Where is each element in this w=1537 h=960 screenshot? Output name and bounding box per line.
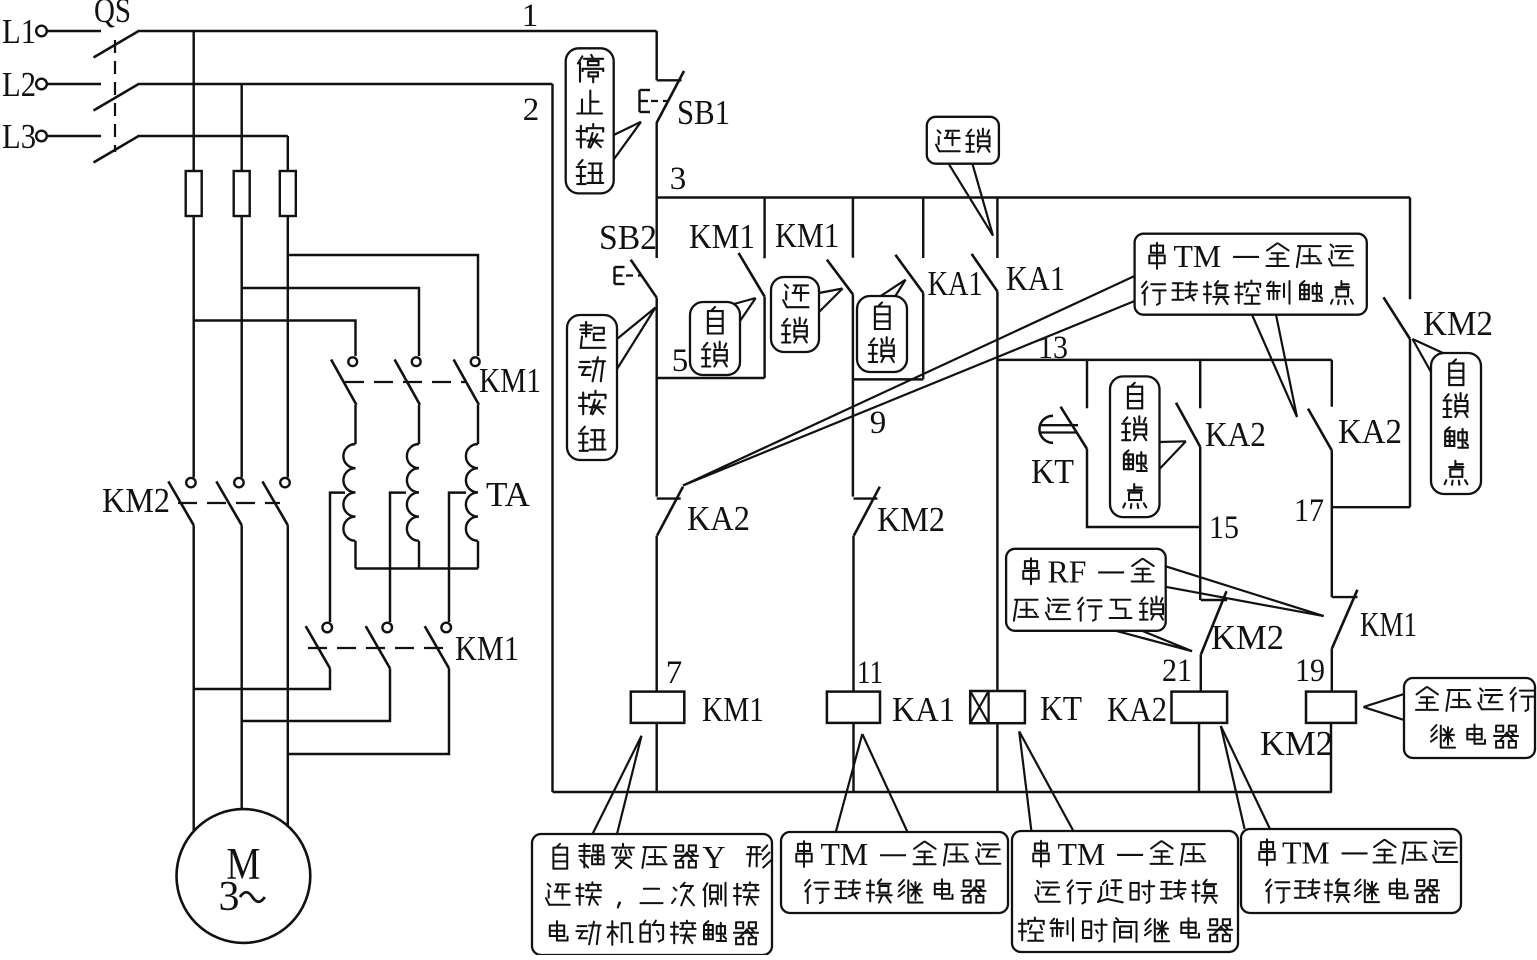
- svg-text:KM1: KM1: [1360, 605, 1417, 644]
- left control rail from node2: [551, 84, 553, 792]
- actuator E of SB2: [613, 267, 615, 284]
- contactor KM2 pole 3: [280, 478, 289, 487]
- branch KA2 first from rail13: [1199, 360, 1201, 408]
- coil KT with delay box: [970, 691, 1025, 723]
- fuse FU2: [234, 171, 250, 216]
- branch A wire rail3 to SB2: [655, 198, 657, 259]
- contactor KM1 main pole 1: [348, 357, 357, 366]
- wire KM2 NC to KA1 coil: [852, 536, 854, 692]
- contactor KM2 linkage dashed: [178, 502, 280, 504]
- contact KM1 self-hold normally-open: [739, 253, 765, 297]
- wire node2 rail from QS to control left rail: [140, 83, 553, 85]
- contactor KM1 tap pole 1: [322, 623, 332, 633]
- contactor KM2 pole 1: [186, 478, 195, 487]
- wire phase U to motor: [192, 525, 194, 831]
- wire TA tap 3: [449, 493, 466, 622]
- svg-text:11: 11: [857, 655, 883, 691]
- wire KM1 tap pole3 to phase W: [288, 668, 449, 754]
- branch D wire rail3 to KA1 self-hold: [922, 198, 924, 259]
- autotransformer TA winding 1: [343, 444, 355, 541]
- contact KA1 self-hold normally-open: [895, 255, 923, 293]
- svg-text:KT: KT: [1031, 452, 1074, 491]
- fuse FU3: [280, 171, 296, 216]
- terminal L3: [36, 131, 47, 142]
- svg-text:KM2: KM2: [1211, 618, 1284, 657]
- wire KA1 coil to bottom rail: [852, 723, 854, 792]
- callout series TM full-voltage transfer control contact: [1135, 234, 1367, 315]
- svg-text:15: 15: [1209, 510, 1239, 546]
- callout series TM delay transfer time relay annotation: [1012, 831, 1238, 952]
- svg-text:19: 19: [1295, 653, 1325, 689]
- wire phase V to motor: [240, 525, 242, 809]
- wire KA2 coil to bottom rail: [1198, 723, 1200, 792]
- svg-text:KM2: KM2: [1423, 304, 1493, 343]
- svg-text:5: 5: [672, 343, 689, 379]
- contactor KM1 tap pole 2: [382, 623, 392, 633]
- callout series RF full-voltage interlock: [1006, 549, 1166, 631]
- wire TA tap 2: [390, 493, 406, 622]
- svg-text:TM: TM: [821, 837, 869, 872]
- wire KA2 first to node15 and KM2 NC: [1199, 447, 1201, 600]
- svg-text:TA: TA: [486, 475, 531, 514]
- wire node9 to KM2 NC: [852, 379, 854, 496]
- callout series TM transfer relay annotation KM2: [1241, 829, 1461, 913]
- wire SB1 branch top: [655, 31, 657, 80]
- svg-text:KM1: KM1: [479, 361, 541, 400]
- callout self-lock annotation branch D: [857, 296, 907, 372]
- svg-text:KA2: KA2: [1107, 690, 1167, 729]
- wire SB1 to rail3: [655, 123, 657, 198]
- branch B wire rail3 to KM1 aux: [763, 198, 765, 259]
- callout interlock annotation top: [927, 117, 999, 164]
- KT delay symbol: [1039, 416, 1053, 443]
- svg-text:21: 21: [1162, 653, 1192, 689]
- callout full-voltage running relay annotation: [1404, 678, 1535, 758]
- wire KM2 NC to KA2 coil: [1200, 654, 1202, 691]
- svg-text:9: 9: [870, 405, 887, 441]
- svg-text:KM2: KM2: [1260, 724, 1333, 763]
- contact KM2 self-hold normally-open: [1384, 297, 1411, 339]
- svg-text:SB1: SB1: [677, 93, 730, 132]
- wire KM2 self-hold to node17: [1409, 339, 1411, 507]
- wire KM1 NC to KM2 coil: [1331, 648, 1333, 691]
- contact KM2 normally-closed in branch C: [854, 497, 878, 499]
- svg-text:KA1: KA1: [892, 690, 955, 729]
- wire KM1 tap pole1 to phase U: [194, 668, 330, 689]
- rail node 13: [997, 359, 1331, 361]
- rail node 3: [657, 196, 1410, 198]
- contact KA2 normally-closed in branch A: [657, 497, 681, 499]
- coil KM2: [1306, 692, 1356, 723]
- contact KM1 interlock normally-open: [827, 260, 853, 295]
- branch KA2 second from rail13: [1331, 360, 1333, 407]
- contact KT delayed normally-open: [1061, 407, 1087, 449]
- svg-text:2: 2: [523, 92, 540, 128]
- svg-text:RF: RF: [1048, 554, 1087, 589]
- svg-text:L3: L3: [2, 117, 36, 156]
- svg-text:KT: KT: [1040, 689, 1082, 728]
- branch KT delayed contact from rail13: [1086, 360, 1088, 408]
- svg-text:KM2: KM2: [102, 481, 170, 520]
- node 5 rail: [657, 377, 765, 379]
- wire branch phase V to KM1 pole2: [242, 288, 419, 356]
- svg-text:KA2: KA2: [1205, 415, 1266, 454]
- svg-text:KM1: KM1: [689, 217, 755, 256]
- wire KM1 tap pole2 to phase V: [242, 668, 390, 721]
- branch KM2 self-hold from rail3: [1409, 198, 1411, 300]
- branch C wire rail3 to KM1 interlock: [852, 198, 854, 258]
- callout self-lock contact annotation KA2: [1110, 376, 1160, 517]
- svg-text:KA1: KA1: [1006, 259, 1065, 298]
- wire KM1 coil to bottom rail: [655, 723, 657, 792]
- node 17 rail: [1332, 506, 1410, 508]
- svg-text:L1: L1: [2, 12, 36, 51]
- svg-text:TM: TM: [1174, 239, 1222, 274]
- svg-text:KM1: KM1: [455, 629, 519, 668]
- svg-text:QS: QS: [94, 0, 131, 30]
- wire KM1 interlock to node9: [852, 294, 854, 379]
- node 9 rail: [853, 378, 923, 380]
- pushbutton SB2 normally-open: [631, 260, 657, 298]
- contactor KM1 main pole 2: [412, 357, 421, 366]
- svg-text:SB2: SB2: [599, 218, 657, 257]
- coil KM1: [631, 692, 685, 723]
- branch E wire rail3 to KA1 contact: [996, 198, 998, 259]
- bottom rail: [553, 791, 1332, 793]
- terminal L2: [36, 79, 47, 90]
- contactor KM1 linkage dashed: [345, 381, 465, 383]
- wire KT contact to node15: [1087, 449, 1200, 527]
- callout autotransformer Y connection annotation: [532, 834, 772, 955]
- wire phase V below fuse: [240, 216, 242, 478]
- autotransformer TA winding 2: [407, 444, 419, 541]
- contact KA2 normally-open second: [1308, 409, 1332, 451]
- svg-text:3: 3: [219, 874, 240, 920]
- callout stop button annotation: [566, 48, 614, 193]
- contactor KM1 main pole 3: [471, 357, 480, 366]
- svg-text:3: 3: [670, 161, 687, 197]
- wire KA2 NC to KM1 coil: [655, 536, 657, 692]
- coil KA2: [1172, 692, 1228, 723]
- wire L1 to QS: [47, 30, 101, 32]
- wire node1 rail from QS to SB1 drop: [140, 30, 657, 32]
- callout interlock annotation branch C: [771, 277, 819, 352]
- wire KA1 branch E down to KT coil: [996, 291, 998, 691]
- wire KT coil to bottom rail: [996, 723, 998, 792]
- svg-text:KM2: KM2: [877, 500, 945, 539]
- wire KM2 coil to bottom rail: [1330, 723, 1332, 792]
- contact KM2 normally-closed interlock: [1201, 599, 1227, 601]
- contactor KM2 pole 2: [234, 478, 243, 487]
- pushbutton SB1 normally-closed: [657, 79, 682, 81]
- wire branch phase W to KM1 pole3: [288, 255, 478, 356]
- wire KM1 aux to node5: [763, 297, 765, 378]
- terminal L1: [36, 26, 47, 37]
- contact KA1 normally-open branch E: [972, 254, 998, 292]
- wire KA1 self-hold to node9: [922, 293, 924, 380]
- wire L3 phase from QS: [140, 135, 288, 137]
- motor M 3~: [177, 809, 311, 943]
- svg-text:1: 1: [522, 0, 539, 34]
- wire KA2 second to node17: [1331, 450, 1333, 597]
- autotransformer TA winding 3: [466, 444, 478, 541]
- wire phase W below fuse: [287, 216, 289, 478]
- wire L3 to QS: [47, 135, 101, 137]
- wire TA tap 1: [330, 493, 345, 622]
- svg-text:17: 17: [1294, 493, 1324, 529]
- actuator E of SB1: [638, 90, 640, 112]
- svg-text:KA2: KA2: [687, 499, 750, 538]
- contact KA2 normally-open first: [1176, 403, 1200, 447]
- svg-text:7: 7: [666, 655, 683, 691]
- coil KA1: [827, 692, 880, 723]
- callout self-lock annotation branch B: [690, 302, 740, 375]
- wire phase W to motor: [287, 525, 289, 826]
- contact KM1 normally-closed interlock: [1332, 596, 1358, 598]
- svg-text:TM: TM: [1058, 837, 1106, 872]
- svg-text:L2: L2: [2, 65, 36, 104]
- svg-text:TM: TM: [1282, 835, 1330, 870]
- svg-text:KA1: KA1: [928, 264, 983, 303]
- wire SB2 to node5 and KA2: [655, 298, 657, 497]
- wire branch phase U to KM1 pole1: [194, 321, 356, 357]
- callout start button annotation: [567, 315, 617, 460]
- wire TA star bus: [354, 541, 356, 569]
- callout self-lock contact annotation KM2: [1431, 353, 1481, 494]
- callout series TM transfer relay annotation KA1: [781, 832, 1008, 913]
- svg-text:KM1: KM1: [775, 216, 839, 255]
- wire phase U drop: [192, 31, 194, 171]
- wire phase W drop: [287, 136, 289, 171]
- wire phase V drop: [240, 84, 242, 171]
- fuse FU1: [186, 171, 202, 216]
- svg-text:KA2: KA2: [1338, 412, 1402, 451]
- contactor KM1 tap pole 3: [441, 623, 451, 633]
- svg-text:Y: Y: [703, 840, 726, 875]
- svg-text:KM1: KM1: [702, 690, 764, 729]
- wire L2 to QS: [47, 83, 101, 85]
- contactor KM1 tap linkage dashed: [308, 647, 446, 649]
- wire phase U below fuse: [192, 216, 194, 478]
